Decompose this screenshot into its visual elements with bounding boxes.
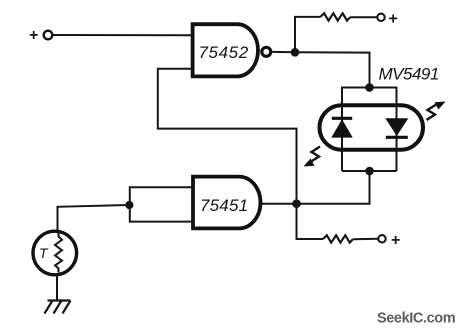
wire top leads bbox=[342, 88, 397, 172]
svg-text:MV5491: MV5491 bbox=[379, 65, 439, 84]
wire D down to R2 bbox=[297, 204, 324, 239]
terminal + V2 top-right bbox=[377, 14, 384, 21]
wire thermistor to node E bbox=[58, 205, 130, 232]
svg-text:T: T bbox=[39, 245, 49, 261]
node E junction bbox=[125, 201, 133, 209]
and gate U2 75451 bbox=[193, 177, 260, 229]
svg-text:75452: 75452 bbox=[199, 43, 249, 62]
light arrow top-right bbox=[427, 102, 446, 121]
wire bbox=[350, 16, 377, 18]
wire bbox=[272, 51, 295, 53]
svg-text:75451: 75451 bbox=[200, 196, 248, 215]
wire C down to output row bbox=[261, 171, 370, 204]
resistor R2 bbox=[323, 235, 353, 242]
led D2 (right, down) bbox=[385, 105, 408, 150]
svg-text:+: + bbox=[389, 11, 398, 28]
wire bbox=[53, 34, 193, 36]
bubble output 75452 bbox=[262, 47, 271, 56]
led D1 (left, up) bbox=[331, 105, 352, 150]
ground bbox=[45, 301, 71, 314]
nand gate U1 75452 bbox=[193, 24, 258, 76]
light arrow bottom-left bbox=[304, 147, 321, 167]
wire node A to LED top bbox=[295, 52, 370, 87]
LED package U3 MV5491 bbox=[320, 105, 424, 150]
terminal + V3 bottom-right bbox=[378, 235, 385, 242]
thermistor TH1 bbox=[33, 231, 77, 275]
wire bbox=[295, 17, 320, 52]
wire thermistor to ground bbox=[56, 275, 58, 301]
svg-text:+: + bbox=[391, 232, 400, 249]
wire input tie bracket bbox=[130, 187, 193, 221]
svg-text:+: + bbox=[29, 27, 38, 44]
wire LED bottom bbox=[342, 170, 397, 172]
node D junction bbox=[292, 199, 301, 208]
node C junction bbox=[365, 167, 374, 176]
wire feedback D up and left to nand input bbox=[158, 69, 297, 204]
resistor R1 bbox=[320, 13, 350, 20]
node A junction bbox=[291, 48, 300, 57]
wire bbox=[353, 238, 378, 240]
svg-text:SeekIC.com: SeekIC.com bbox=[377, 311, 455, 327]
node B junction bbox=[365, 83, 374, 92]
